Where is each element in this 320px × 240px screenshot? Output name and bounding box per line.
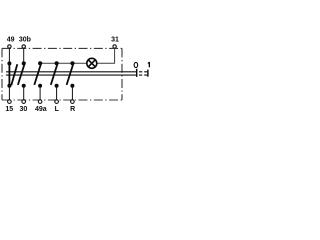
lever col3 xyxy=(34,62,41,85)
svg-text:30: 30 xyxy=(20,106,28,113)
label position 1 xyxy=(148,62,150,67)
mechanical linkage double bar xyxy=(6,72,137,75)
label position 0 xyxy=(134,62,138,67)
bottom contact dot col4 xyxy=(55,84,59,88)
top contact dot col4 xyxy=(55,61,59,65)
svg-text:R: R xyxy=(70,106,75,113)
bus wire top contacts 49a L R to lamp xyxy=(40,62,87,64)
wire col4 down to terminal L xyxy=(56,86,58,100)
wire 30b down to contact xyxy=(23,48,25,63)
bottom contact dot col5 xyxy=(70,84,74,88)
lever col2 xyxy=(18,62,25,85)
position travel dashes xyxy=(139,72,147,75)
indicator lamp xyxy=(87,58,97,68)
wire 49 down to contact xyxy=(8,48,10,63)
top contact dot col5 xyxy=(70,61,74,65)
top contact dot col3 xyxy=(38,61,42,65)
wire 31 down then left to lamp xyxy=(97,48,115,63)
lever col1 xyxy=(11,64,17,85)
terminal 31 circle xyxy=(113,45,116,48)
svg-text:15: 15 xyxy=(5,106,13,113)
terminal 15 circle xyxy=(8,100,12,104)
top contact dot col2 xyxy=(22,61,26,65)
position 1 tick xyxy=(147,70,149,77)
device outline left border xyxy=(1,48,3,100)
lever col5 xyxy=(67,62,74,85)
wire col5 down to terminal R xyxy=(71,86,73,100)
wire col2 down to terminal 30 xyxy=(23,86,25,100)
wire col3 down to terminal 49a xyxy=(39,86,41,100)
bottom contact dot col1 xyxy=(7,84,11,88)
wire col1 down to terminal 15 xyxy=(8,86,10,100)
terminal 30b circle xyxy=(22,45,25,48)
terminal 49 circle xyxy=(8,45,11,48)
position 0 tick xyxy=(136,69,138,77)
svg-text:L: L xyxy=(55,106,60,113)
closed contact col1 vertical lever xyxy=(8,63,10,85)
device outline right border xyxy=(121,48,123,100)
svg-text:31: 31 xyxy=(111,37,119,44)
top contact dot col1 xyxy=(7,61,11,65)
terminal 30 circle xyxy=(22,100,26,104)
lever col4 xyxy=(51,62,58,85)
svg-text:49: 49 xyxy=(7,37,15,44)
svg-text:49a: 49a xyxy=(35,106,47,113)
device outline dash-dot box top border xyxy=(2,47,122,49)
device outline bottom border xyxy=(2,99,122,101)
terminal 49a circle xyxy=(38,100,42,104)
bottom contact dot col2 xyxy=(22,84,26,88)
terminal L circle xyxy=(55,100,59,104)
bottom contact dot col3 xyxy=(38,84,42,88)
svg-text:30b: 30b xyxy=(19,37,31,44)
terminal R circle xyxy=(71,100,75,104)
